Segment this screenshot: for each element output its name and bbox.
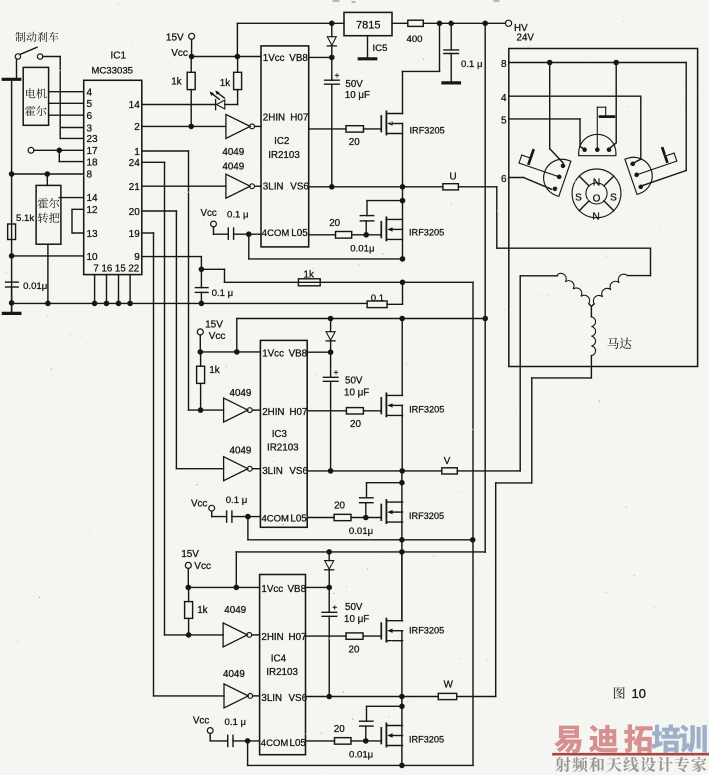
svg-text:2: 2: [134, 122, 140, 133]
svg-text:15V: 15V: [166, 33, 184, 44]
svg-text:0.1 μ: 0.1 μ: [212, 288, 234, 299]
svg-text:20: 20: [334, 724, 345, 735]
svg-text:21: 21: [129, 182, 141, 193]
svg-text:+: +: [335, 70, 340, 80]
svg-text:20: 20: [349, 645, 360, 656]
svg-text:Vcc: Vcc: [193, 716, 209, 727]
svg-text:2HIN: 2HIN: [262, 407, 284, 418]
svg-text:W: W: [444, 680, 454, 691]
svg-text:S: S: [610, 193, 617, 204]
svg-text:4: 4: [87, 88, 93, 99]
svg-text:4COM: 4COM: [262, 228, 290, 239]
svg-text:MC33035: MC33035: [91, 66, 133, 77]
svg-text:IRF3205: IRF3205: [410, 126, 445, 136]
svg-text:4049: 4049: [222, 147, 244, 158]
svg-text:VB8: VB8: [289, 348, 308, 359]
svg-text:0.01μ: 0.01μ: [349, 750, 373, 761]
svg-text:5.1k: 5.1k: [16, 213, 34, 224]
svg-text:24: 24: [129, 158, 141, 169]
svg-text:4049: 4049: [222, 161, 244, 172]
svg-text:10 μF: 10 μF: [345, 90, 370, 101]
svg-text:10 μF: 10 μF: [344, 388, 369, 399]
svg-text:50V: 50V: [345, 79, 363, 90]
svg-text:3: 3: [87, 123, 93, 134]
svg-text:1k: 1k: [171, 77, 181, 88]
svg-text:20: 20: [349, 137, 360, 148]
svg-text:VS6: VS6: [289, 693, 308, 704]
svg-text:N: N: [592, 210, 600, 222]
svg-text:H07: H07: [289, 632, 307, 643]
svg-text:20: 20: [129, 207, 141, 218]
svg-text:7815: 7815: [356, 20, 380, 32]
svg-text:Vcc: Vcc: [194, 561, 211, 572]
svg-text:S: S: [575, 193, 582, 204]
svg-text:6: 6: [87, 111, 93, 122]
svg-text:Vcc: Vcc: [171, 48, 188, 59]
svg-text:14: 14: [129, 100, 141, 111]
svg-text:VB8: VB8: [288, 584, 307, 595]
svg-text:+: +: [332, 602, 337, 612]
svg-text:1Vcc: 1Vcc: [263, 53, 285, 64]
svg-text:1Vcc: 1Vcc: [261, 584, 283, 595]
svg-text:IRF3205: IRF3205: [409, 405, 444, 415]
svg-text:400: 400: [407, 34, 423, 45]
svg-text:10 μF: 10 μF: [344, 614, 369, 625]
svg-text:IRF3205: IRF3205: [409, 626, 444, 636]
svg-text:IC5: IC5: [373, 43, 388, 54]
svg-text:IRF3205: IRF3205: [409, 735, 444, 745]
svg-text:17: 17: [87, 146, 99, 157]
svg-text:15V: 15V: [181, 549, 199, 560]
svg-text:4COM: 4COM: [261, 738, 289, 749]
svg-text:1: 1: [134, 147, 140, 158]
svg-text:4049: 4049: [223, 669, 245, 680]
svg-text:IC2: IC2: [274, 136, 289, 147]
svg-text:IR2103: IR2103: [267, 443, 299, 454]
svg-text:IRF3205: IRF3205: [409, 228, 444, 238]
svg-text:1k: 1k: [197, 605, 207, 616]
svg-text:0.1 μ: 0.1 μ: [226, 495, 248, 506]
svg-text:5: 5: [501, 116, 507, 127]
svg-text:10: 10: [87, 252, 99, 263]
svg-text:24V: 24V: [517, 33, 535, 44]
svg-text:50V: 50V: [345, 602, 363, 613]
svg-text:3LIN: 3LIN: [263, 181, 284, 192]
svg-text:0.1 μ: 0.1 μ: [225, 717, 247, 728]
svg-text:18: 18: [87, 158, 99, 169]
svg-text:8: 8: [87, 170, 93, 181]
svg-text:1k: 1k: [220, 78, 230, 89]
svg-text:IC1: IC1: [111, 50, 127, 61]
svg-text:L05: L05: [291, 228, 308, 239]
svg-text:0.1 μ: 0.1 μ: [461, 59, 483, 70]
svg-text:13: 13: [87, 229, 99, 240]
svg-text:U: U: [450, 172, 457, 183]
svg-text:Vcc: Vcc: [201, 208, 217, 219]
svg-text:IRF3205: IRF3205: [409, 511, 444, 521]
svg-text:20: 20: [329, 218, 340, 229]
svg-text:V: V: [444, 456, 451, 467]
svg-text:IR2103: IR2103: [268, 150, 300, 161]
svg-text:IR2103: IR2103: [266, 667, 298, 678]
svg-text:0.01μ: 0.01μ: [350, 244, 374, 255]
svg-text:10: 10: [632, 686, 646, 701]
svg-text:H07: H07: [289, 407, 307, 418]
svg-text:0.01μ: 0.01μ: [349, 526, 373, 537]
svg-text:H07: H07: [290, 113, 308, 124]
svg-text:2HIN: 2HIN: [261, 632, 283, 643]
svg-text:4: 4: [501, 93, 507, 104]
svg-text:0.1 μ: 0.1 μ: [227, 210, 249, 221]
svg-text:VS6: VS6: [289, 466, 308, 477]
svg-text:VB8: VB8: [289, 53, 308, 64]
svg-text:+: +: [334, 367, 339, 377]
svg-text:1k: 1k: [209, 365, 219, 376]
svg-text:N: N: [593, 176, 601, 188]
svg-text:4049: 4049: [230, 388, 252, 399]
svg-text:8: 8: [501, 59, 507, 70]
svg-text:12: 12: [87, 205, 99, 216]
svg-text:50V: 50V: [345, 376, 363, 387]
svg-text:6: 6: [501, 174, 507, 185]
svg-text:Vcc: Vcc: [209, 331, 226, 342]
svg-text:0.01μ: 0.01μ: [23, 281, 47, 292]
svg-text:L05: L05: [290, 738, 307, 749]
svg-text:Vcc: Vcc: [191, 499, 207, 510]
svg-text:4049: 4049: [224, 605, 246, 616]
svg-text:O: O: [593, 194, 601, 205]
svg-text:1k: 1k: [304, 270, 314, 281]
svg-text:1Vcc: 1Vcc: [262, 348, 284, 359]
svg-text:2HIN: 2HIN: [263, 113, 285, 124]
svg-text:0.1: 0.1: [371, 293, 384, 304]
svg-text:VS6: VS6: [290, 181, 309, 192]
svg-text:3LIN: 3LIN: [261, 693, 282, 704]
svg-text:4049: 4049: [230, 446, 252, 457]
svg-text:9: 9: [134, 252, 140, 263]
svg-text:4COM: 4COM: [262, 514, 290, 525]
svg-text:5: 5: [87, 99, 93, 110]
svg-text:IC4: IC4: [271, 654, 287, 665]
svg-text:15V: 15V: [205, 319, 223, 330]
svg-text:IC3: IC3: [272, 429, 288, 440]
svg-text:19: 19: [129, 229, 141, 240]
svg-text:3LIN: 3LIN: [262, 466, 283, 477]
svg-text:L05: L05: [290, 514, 307, 525]
svg-text:20: 20: [350, 419, 361, 430]
svg-text:20: 20: [334, 501, 345, 512]
svg-text:23: 23: [87, 134, 99, 145]
svg-text:7 16 15 22: 7 16 15 22: [93, 264, 139, 275]
svg-text:14: 14: [87, 193, 99, 204]
